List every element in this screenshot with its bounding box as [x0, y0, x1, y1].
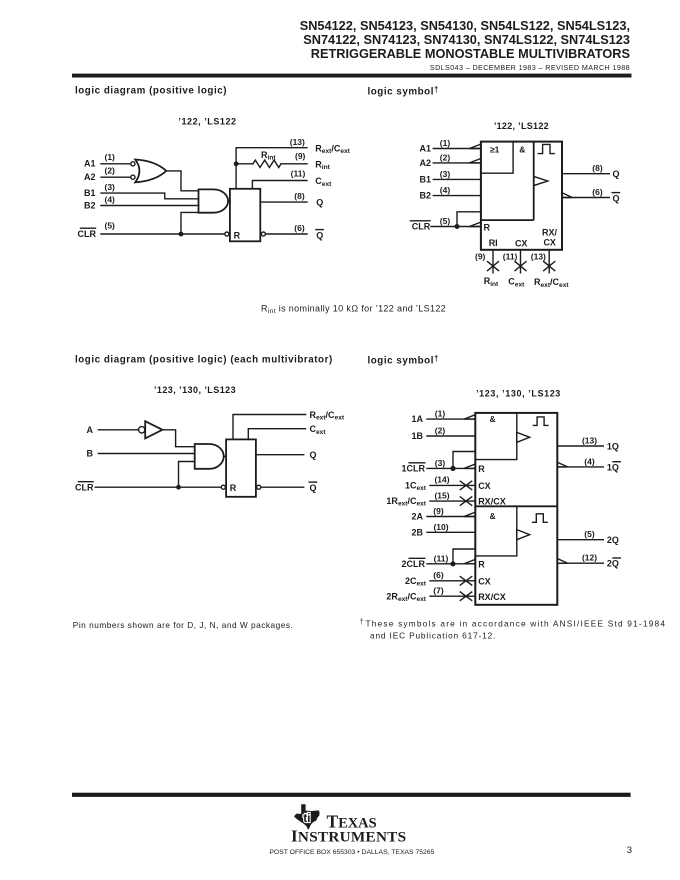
svg-text:’123, ’130, ’LS123: ’123, ’130, ’LS123 [154, 385, 236, 395]
svg-text:(13): (13) [290, 137, 305, 147]
svg-text:RX/CX: RX/CX [478, 497, 506, 507]
wire 1Rext/Cext [430, 500, 475, 502]
negation bubble R input [221, 485, 225, 489]
svg-text:(10): (10) [433, 522, 448, 532]
symbol outline U4 [475, 413, 557, 605]
svg-text:logic symbol†: logic symbol† [368, 354, 439, 367]
svg-text:RX/CX: RX/CX [478, 592, 506, 602]
svg-text:B2: B2 [84, 201, 96, 211]
svg-text:(4): (4) [440, 185, 451, 195]
pulse (monostable) icon [538, 144, 554, 153]
svg-text:1CLR: 1CLR [401, 464, 425, 474]
polarity triangle 1CLR [464, 464, 475, 468]
svg-text:(12): (12) [582, 553, 597, 563]
svg-text:1B: 1B [411, 431, 423, 441]
junction CLR/AND branch [179, 232, 184, 237]
negation bubble R input [225, 232, 229, 236]
svg-text:Rint is nominally 10 kΩ for ’1: Rint is nominally 10 kΩ for ’122 and ’LS… [261, 304, 446, 316]
svg-text:(9): (9) [295, 151, 306, 161]
svg-text:RI: RI [489, 238, 498, 248]
wire Cext from block top [252, 181, 307, 189]
svg-text:2B: 2B [411, 527, 423, 537]
pulse icon 1 [533, 417, 548, 426]
header: part numbers title block [300, 18, 630, 72]
negation bubble Qbar output [261, 232, 265, 236]
wire A2 [433, 162, 481, 164]
svg-text:A: A [87, 425, 94, 435]
svg-text:2Q: 2Q [607, 535, 619, 545]
svg-text:(6): (6) [433, 570, 444, 580]
non-logic X mark pin 11 [515, 262, 526, 271]
svg-text:(3): (3) [440, 169, 451, 179]
OR gate (negative-input) for A1/A2 [135, 160, 166, 183]
negation bubble A2 input [131, 175, 135, 179]
internal divider [533, 142, 535, 221]
monostable block U3 [226, 439, 256, 496]
TI logo: Texas map [294, 804, 320, 830]
wire Q output [260, 201, 307, 203]
svg-text:R: R [484, 223, 491, 233]
svg-text:Q: Q [316, 230, 323, 240]
wire 2Cext [430, 580, 475, 582]
svg-text:(7): (7) [433, 586, 444, 596]
svg-text:SN74122, SN74123, SN74130, SN7: SN74122, SN74123, SN74130, SN74LS122, SN… [303, 32, 630, 47]
polarity triangle A2 [469, 159, 481, 163]
wire Rext/Cext from block top [236, 148, 307, 189]
polarity triangle 2A [464, 512, 475, 516]
svg-text:logic symbol†: logic symbol† [368, 85, 439, 98]
svg-text:≥1: ≥1 [490, 144, 500, 154]
junction 2CLR branch [450, 561, 455, 566]
wire Qbar output [265, 233, 307, 235]
svg-text:RX/: RX/ [542, 227, 558, 237]
svg-text:&: & [490, 414, 496, 424]
svg-text:Q: Q [310, 483, 317, 493]
non-logic X mark pin 9 [488, 262, 499, 271]
svg-text:(1): (1) [105, 152, 116, 162]
wire 1Q output [557, 445, 603, 447]
svg-text:logic diagram (positive logic): logic diagram (positive logic) (each mul… [75, 355, 333, 366]
svg-text:(9): (9) [475, 251, 486, 261]
svg-text:R: R [478, 559, 485, 569]
wire A1 [433, 148, 481, 150]
svg-text:2CLR: 2CLR [401, 559, 425, 569]
wire 2Q output [557, 539, 603, 541]
svg-text:(1): (1) [440, 138, 451, 148]
svg-text:and IEC Publication 617-12.: and IEC Publication 617-12. [370, 631, 496, 641]
svg-text:(9): (9) [433, 506, 444, 516]
wire 1CLR branch to box [453, 452, 475, 469]
svg-text:(13): (13) [531, 252, 546, 262]
non-logic X mark 2Rext/Cext [460, 592, 471, 600]
polarity triangle 2CLR [464, 559, 475, 563]
svg-text:R: R [230, 483, 237, 493]
AND gate (3-input) [195, 444, 224, 469]
junction CLR branch [455, 224, 460, 229]
wire Cext from block top [248, 429, 305, 440]
wire 2Rext/Cext [430, 595, 475, 597]
svg-text:B2: B2 [419, 191, 431, 201]
resistor Rint [236, 163, 253, 165]
wire 1B [427, 435, 475, 437]
svg-text:(1): (1) [435, 409, 446, 419]
svg-text:A1: A1 [419, 144, 431, 154]
AND sub-box 1 [475, 413, 517, 460]
svg-text:A2: A2 [84, 172, 96, 182]
svg-text:CLR: CLR [78, 229, 97, 239]
top rule [72, 74, 632, 78]
wire Q output [562, 173, 609, 175]
wire AND output to monostable [228, 200, 230, 202]
svg-text:R: R [234, 230, 241, 240]
stub RI pin 9 [492, 250, 494, 273]
svg-text:CX: CX [515, 238, 528, 248]
wire 2CLR [427, 563, 475, 565]
negation bubble Qbar output [257, 485, 261, 489]
symbol outline U2 [481, 142, 562, 250]
dynamic triangle 2 [517, 530, 530, 540]
svg-text:CLR: CLR [412, 222, 431, 232]
wire B2 [101, 205, 199, 207]
negation bubble inverter input [139, 427, 145, 433]
svg-text:(2): (2) [435, 426, 446, 436]
wire 1Qbar output [557, 466, 603, 468]
non-logic X mark pin 13 [544, 262, 555, 271]
svg-text:(8): (8) [294, 191, 305, 201]
svg-text:1A: 1A [411, 414, 423, 424]
AND gate (4-input) [199, 189, 229, 212]
wire A1 [101, 163, 131, 165]
svg-text:INSTRUMENTS: INSTRUMENTS [291, 827, 406, 846]
wire B [98, 453, 194, 455]
wire inverter output to AND [162, 430, 194, 447]
wire A [98, 429, 138, 431]
dynamic triangle 1 [517, 432, 530, 442]
svg-text:&: & [490, 511, 496, 521]
svg-text:(11): (11) [291, 169, 306, 179]
svg-text:2A: 2A [411, 512, 423, 522]
svg-text:Q: Q [310, 450, 317, 460]
OR element sub-box [481, 142, 513, 174]
svg-text:1Q: 1Q [607, 442, 619, 452]
svg-text:SDLS043 – DECEMBER 1983 – REVI: SDLS043 – DECEMBER 1983 – REVISED MARCH … [430, 63, 630, 72]
svg-text:Q: Q [613, 193, 620, 203]
negation bubble A1 input [131, 162, 135, 166]
wire 2B [427, 531, 475, 533]
svg-text:(2): (2) [440, 152, 451, 162]
svg-text:Q: Q [316, 197, 323, 207]
wire Q output [256, 454, 304, 456]
wire Qbar output [261, 486, 304, 488]
wire CLR [101, 233, 225, 235]
svg-text:’122, ’LS122: ’122, ’LS122 [178, 117, 236, 127]
divider between sections [475, 505, 557, 507]
svg-text:(14): (14) [434, 475, 449, 485]
polarity triangle A1 [469, 144, 481, 148]
svg-text:(4): (4) [584, 456, 595, 466]
polarity triangle 1Qbar [557, 462, 567, 467]
dynamic input triangle [534, 176, 548, 185]
polarity triangle CLR [469, 222, 481, 226]
svg-text:(5): (5) [105, 220, 116, 230]
svg-text:ti: ti [303, 811, 310, 825]
svg-text:&: & [519, 144, 525, 154]
wire CLR to AND input [181, 212, 199, 234]
non-logic X mark 1Cext [460, 481, 471, 489]
wire CLR to AND input [179, 462, 195, 488]
non-logic X mark 2Cext [460, 577, 471, 585]
svg-text:2Q: 2Q [607, 559, 619, 569]
svg-text:’123, ’130, ’LS123: ’123, ’130, ’LS123 [476, 388, 561, 398]
svg-text:(11): (11) [503, 251, 518, 261]
wire B1 [101, 193, 199, 199]
svg-text:CX: CX [478, 576, 491, 586]
svg-text:(5): (5) [584, 529, 595, 539]
wire 1A [427, 418, 475, 420]
non-logic X mark 1Rext/Cext [460, 497, 471, 505]
svg-text:Pin numbers shown are for D, J: Pin numbers shown are for D, J, N, and W… [73, 620, 294, 630]
svg-text:B: B [87, 449, 94, 459]
svg-text:1Q: 1Q [607, 462, 619, 472]
bottom rule [72, 793, 631, 797]
wire CLR [431, 226, 481, 228]
wire 2CLR branch to box [453, 549, 475, 564]
wire Rext/Cext from block top [233, 415, 306, 440]
stub RX/CX pin 13 [548, 250, 550, 273]
svg-text:CX: CX [543, 238, 556, 248]
svg-text:R: R [478, 464, 485, 474]
internal bottom line [481, 219, 534, 221]
svg-text:’122, ’LS122: ’122, ’LS122 [494, 121, 549, 131]
wire 1CLR [427, 467, 475, 469]
svg-text:(6): (6) [592, 187, 603, 197]
svg-text:(3): (3) [435, 458, 446, 468]
svg-text:(6): (6) [294, 223, 305, 233]
inverter triangle [145, 421, 162, 438]
wire AND output to block [224, 455, 227, 457]
svg-text:(2): (2) [105, 166, 116, 176]
svg-text:(3): (3) [105, 182, 116, 192]
AND sub-box 2 [475, 506, 517, 556]
monostable block U1 [230, 189, 260, 242]
wire B2 [433, 195, 481, 197]
svg-text:CLR: CLR [75, 483, 94, 493]
svg-text:B1: B1 [84, 188, 96, 198]
wire A2 [101, 176, 131, 178]
svg-text:POST OFFICE BOX 655303 • DALLA: POST OFFICE BOX 655303 • DALLAS, TEXAS 7… [269, 849, 434, 856]
junction 1CLR branch [450, 466, 455, 471]
svg-text:A1: A1 [84, 159, 96, 169]
wire CLR branch to box [457, 212, 481, 227]
svg-text:CX: CX [478, 481, 491, 491]
svg-text:(15): (15) [434, 490, 449, 500]
svg-text:(11): (11) [434, 553, 449, 563]
svg-text:(13): (13) [582, 436, 597, 446]
wire 2Qbar output [557, 562, 603, 564]
svg-text:B1: B1 [419, 175, 431, 185]
svg-text:A2: A2 [419, 158, 431, 168]
wire Qbar output [562, 197, 609, 199]
polarity triangle Qbar [562, 193, 572, 198]
wire B1 [433, 178, 481, 180]
svg-text:(4): (4) [105, 194, 116, 204]
svg-text:RETRIGGERABLE MONOSTABLE MULTI: RETRIGGERABLE MONOSTABLE MULTIVIBRATORS [311, 46, 630, 61]
stub CX pin 11 [520, 250, 522, 273]
svg-text:†These symbols are in accordan: †These symbols are in accordance with AN… [360, 619, 666, 629]
wire CLR [95, 486, 221, 488]
svg-text:logic diagram (positive logic): logic diagram (positive logic) [75, 86, 227, 97]
pulse icon 2 [533, 514, 548, 523]
svg-text:(5): (5) [440, 216, 451, 226]
svg-text:SN54122, SN54123, SN54130, SN5: SN54122, SN54123, SN54130, SN54LS122, SN… [300, 18, 630, 33]
junction CLR/AND branch [176, 485, 181, 490]
junction Rint branch [234, 161, 239, 166]
polarity triangle 2Qbar [557, 559, 567, 564]
svg-text:(8): (8) [592, 163, 603, 173]
svg-text:Q: Q [613, 169, 620, 179]
wire 1Cext [430, 484, 475, 486]
polarity triangle 1A [464, 415, 475, 419]
wire OR output to AND input [166, 171, 198, 191]
svg-text:3: 3 [627, 845, 632, 856]
wire 2A [427, 516, 475, 518]
